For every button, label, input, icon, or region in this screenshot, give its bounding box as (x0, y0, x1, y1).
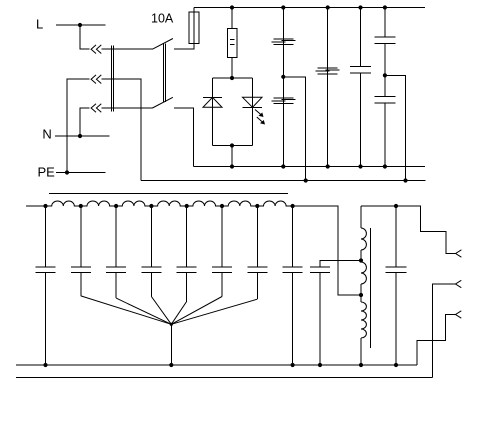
fuse F1 (189, 12, 199, 43)
node loop top (230, 76, 234, 80)
wire C7 to star (151, 297, 171, 325)
inductor L8 (187, 201, 222, 206)
capacitor C12 (310, 267, 330, 365)
connector J2 (456, 280, 462, 287)
node filter col1 top (43, 204, 47, 208)
bottom rail 2 (16, 377, 433, 379)
capacitor C6 (106, 206, 126, 298)
node rail2 branch E (403, 178, 407, 182)
node filter col6 top (220, 204, 224, 208)
node filter col3 top (114, 204, 118, 208)
wire resistor to loop (231, 58, 233, 79)
choke L2 (271, 98, 295, 104)
connector J1 (456, 250, 462, 257)
wire column B to rail 2 (283, 77, 305, 181)
node top rail column D (358, 5, 362, 9)
wire top rail to resistor R1 (231, 8, 233, 29)
switch S1 pole 2 blade (152, 97, 173, 108)
capacitor C4 (36, 206, 56, 365)
transformer T1 winding middle (361, 262, 366, 284)
wire filter rail to transformer drop (293, 206, 361, 295)
capacitor C9 (212, 206, 232, 297)
capacitor C5 (71, 206, 91, 296)
wire row2 through connector to PE rail (101, 79, 141, 180)
node output cap bottom (394, 363, 398, 367)
wire column B (282, 8, 284, 167)
inductor L10 (257, 201, 292, 206)
switch S1 pole 2 contact wire to rail (174, 108, 194, 167)
node rail1 column E (383, 164, 387, 168)
svg-text:L: L (36, 17, 43, 32)
svg-text:10A: 10A (151, 12, 174, 26)
node star on bottom rail (169, 363, 173, 367)
inductor L4 (46, 201, 81, 206)
inductor L5 (81, 201, 116, 206)
node top rail column A (230, 5, 234, 9)
node top rail column C (326, 5, 330, 9)
wire transformer top to output (361, 206, 456, 254)
wire column C (327, 8, 329, 167)
svg-text:PE: PE (38, 165, 56, 180)
node rail1 column C (326, 164, 330, 168)
node transformer middle tap (359, 258, 363, 262)
capacitor C3 (374, 75, 395, 166)
capacitor C13 (386, 206, 407, 365)
transformer T1 winding upper (361, 228, 366, 250)
inductor L9 (222, 201, 257, 206)
resistor R1 (fusible) (228, 28, 237, 57)
capacitor C2 (374, 8, 395, 76)
capacitor C11 (283, 206, 303, 365)
node filter col1 bottom (43, 363, 47, 367)
switch S1 pole 1 contact wire (174, 43, 194, 49)
wire PE terminal (56, 170, 106, 174)
capacitor C8 (177, 206, 197, 301)
wire C6 to star (116, 298, 171, 324)
wire N terminal (55, 134, 110, 138)
node rail1 column B (281, 164, 285, 168)
capacitor C7 (141, 206, 161, 297)
wire fuse to top rail (193, 8, 195, 13)
wire PE up to connector pin 2 (67, 79, 90, 172)
wire C5 to star (81, 296, 172, 324)
capacitor C1 (350, 8, 371, 167)
node filter col5 top (185, 204, 189, 208)
node filter col8 bottom (291, 363, 295, 367)
node rail1 column A (230, 164, 234, 168)
wire J2 to bottom rail 2 (432, 284, 455, 378)
top rail (194, 7, 425, 9)
LED D2 arrows (255, 110, 265, 125)
node transformer lower tap (359, 293, 363, 297)
wire column E to rail 2 (385, 75, 406, 180)
connector X1 boundary lines (111, 46, 113, 112)
node filter col4 top (149, 204, 153, 208)
wire L terminal (56, 23, 106, 27)
connector J3 (456, 311, 462, 318)
node top rail column B (281, 5, 285, 9)
wire N up to connector pin 3 (80, 108, 90, 136)
bottom rail 1 (16, 364, 417, 366)
node star point (170, 323, 173, 326)
wire C9 to star (171, 297, 222, 325)
wire row3 to switch (101, 107, 152, 109)
node filter col8 top (291, 204, 295, 208)
transformer T1 winding lower (361, 302, 366, 338)
node column B mid (281, 75, 285, 79)
switch S1 pole 1 blade (152, 39, 173, 50)
capacitor C10 (247, 206, 267, 299)
wire loop frame (213, 78, 253, 146)
choke L1 (271, 39, 295, 45)
node top rail column E (383, 5, 387, 9)
connector pin chevron row2 (91, 75, 101, 84)
inductor L6 (116, 201, 151, 206)
node filter col7 top (255, 204, 259, 208)
wire loop to rail 1 (231, 146, 233, 167)
connector pin chevron row3 (91, 104, 101, 113)
choke L3 (316, 68, 340, 74)
wire transformer top lead (360, 206, 362, 228)
node loop bottom (230, 143, 234, 147)
wire C8 to star (171, 301, 186, 324)
rail 2 (PE) (141, 180, 426, 182)
diode D1 (203, 97, 222, 107)
svg-text:N: N (42, 127, 51, 142)
node column E mid (383, 73, 387, 77)
node rail2 branch B (304, 178, 308, 182)
wire middle tap to C12 (320, 261, 361, 268)
wire star to bottom rail (170, 324, 172, 365)
transformer T1 core (370, 228, 372, 348)
inductor L7 (151, 201, 186, 206)
node transformer bottom (359, 363, 363, 367)
node rail1 column D (358, 164, 362, 168)
node output cap top (394, 204, 398, 208)
filter top rail left stub (26, 205, 46, 207)
wire L to connector pin 1 (80, 25, 90, 49)
LED D2 (243, 97, 263, 107)
switch S1 linkage (163, 44, 165, 103)
wire C10 to star (171, 299, 257, 324)
wire J3 to bottom rail 1 (417, 315, 455, 366)
connector pin chevron row1 (91, 45, 101, 54)
shield line above filter inductors (49, 193, 288, 195)
rail 1 (return) (194, 166, 425, 168)
node filter col2 top (79, 204, 83, 208)
node C12 bottom (318, 363, 322, 367)
wire row1 to switch (101, 48, 152, 50)
